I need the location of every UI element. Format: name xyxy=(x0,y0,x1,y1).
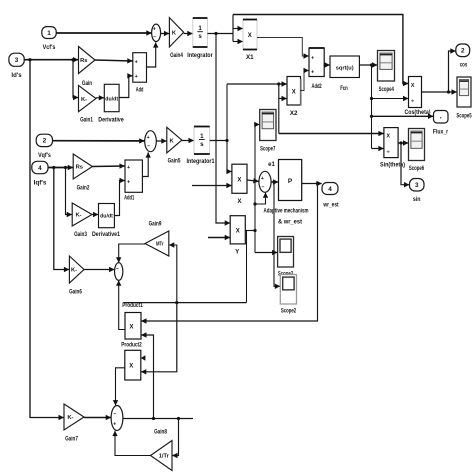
svg-text:K-: K- xyxy=(81,97,87,103)
svg-text:K-: K- xyxy=(75,213,81,219)
svg-text:Scope2: Scope2 xyxy=(281,308,297,315)
gain Gain (Rs) d-axis xyxy=(79,47,96,74)
svg-text:Gain6: Gain6 xyxy=(69,289,82,296)
wire: Y output junction xyxy=(245,230,255,232)
product X (cross term 1) xyxy=(232,164,247,193)
svg-text:Vcf's: Vcf's xyxy=(43,44,56,51)
wire: X2 second input stub xyxy=(278,84,280,134)
wire: sin output to Scope6 and port sin xyxy=(398,142,408,144)
svg-text:X: X xyxy=(386,134,390,140)
wire: Gain3 to Derivative1 xyxy=(92,214,98,216)
gain Gain4 (K) xyxy=(169,18,183,47)
wire: bottom sum output with junctions xyxy=(123,418,193,420)
svg-text:Add: Add xyxy=(136,87,144,94)
svg-text:X1: X1 xyxy=(246,54,254,61)
output port 2 cos xyxy=(456,44,470,57)
wire: Gain9 output to mid sum top xyxy=(119,244,145,263)
wire: port2 Vqf's to Sum2 xyxy=(53,140,145,142)
wire: port1 Vcf's to sum Sum1 xyxy=(56,32,151,34)
wire: Add output up into Sum1 xyxy=(147,42,156,67)
svg-text:s: s xyxy=(198,33,202,40)
svg-text:wr_est: wr_est xyxy=(323,203,339,209)
svg-text:+: + xyxy=(135,60,138,66)
wire: Gain5 to Integrator1 xyxy=(182,140,194,142)
svg-text:−: − xyxy=(116,266,119,272)
block Derivative du/dt xyxy=(104,84,119,111)
svg-text:X: X xyxy=(129,325,133,331)
svg-text:1: 1 xyxy=(200,133,204,140)
svg-text:÷: ÷ xyxy=(411,99,414,105)
svg-text:X: X xyxy=(292,90,296,96)
product X2 (flux_q squared) xyxy=(287,77,301,106)
scope Scope3 xyxy=(278,237,294,268)
block Integrator1 1/s xyxy=(194,127,210,155)
wire: Gain7 to bottom sum xyxy=(84,417,111,419)
svg-text:X: X xyxy=(237,178,241,184)
svg-text:−: − xyxy=(261,184,264,190)
wire: Iqf's vertical down to Gain6 xyxy=(54,168,69,270)
output port 4 wr_est xyxy=(322,183,338,195)
svg-text:−: − xyxy=(113,411,116,417)
wire: flux_q long wire to Sin divide xyxy=(279,133,384,135)
wire: Y signal up to Scope7 and down to Scope3 xyxy=(254,125,256,253)
wire: magnitude to Sin divide divisor xyxy=(372,148,384,150)
gain Gain6 (K-) xyxy=(69,256,84,283)
wire: Sum1 to Gain4 xyxy=(161,33,170,35)
wire: Add1 output up into Sum2 xyxy=(142,152,148,176)
svg-text:du/dt: du/dt xyxy=(105,96,118,102)
gain Gain7 (K-) xyxy=(64,404,84,430)
svg-text:Gain5: Gain5 xyxy=(168,158,181,165)
svg-text:Gain9: Gain9 xyxy=(149,221,162,228)
wire: Fcn output to Scope4 with junction xyxy=(359,64,377,66)
svg-text:+: + xyxy=(135,74,138,80)
svg-text:K-: K- xyxy=(67,415,73,421)
svg-text:+: + xyxy=(127,180,130,186)
wire: magnitude to Cos divide divisor xyxy=(372,98,409,100)
svg-text:+: + xyxy=(261,176,264,182)
svg-text:3: 3 xyxy=(415,182,419,189)
scope Scope4 xyxy=(378,51,395,82)
wire: magnitude to Flux_r port xyxy=(372,115,434,117)
wire: X1 input trunk xyxy=(232,15,234,42)
svg-text:Gain1: Gain1 xyxy=(80,117,93,124)
svg-text:Gain7: Gain7 xyxy=(65,436,78,443)
block P adaptive mechanism xyxy=(279,160,302,201)
svg-text:−: − xyxy=(153,34,156,40)
svg-text:Gain3: Gain3 xyxy=(74,231,87,238)
gain Gain8 1/Tr reversed xyxy=(151,441,173,471)
wire: up to Gain9 MTr input xyxy=(169,245,177,303)
wire: flux_d vertical down to product Y in1 xyxy=(216,34,230,224)
svg-text:Gain4: Gain4 xyxy=(170,52,183,59)
svg-text:e1: e1 xyxy=(268,162,275,168)
svg-text:X2: X2 xyxy=(290,110,298,117)
wire: Gain1 to Derivative xyxy=(96,97,104,99)
wire: down to Gain8 1/Tr input xyxy=(172,419,178,456)
block Fcn sqrt(u) xyxy=(330,56,359,78)
svg-text:Iqf's: Iqf's xyxy=(34,180,47,187)
svg-text:& wr_est: & wr_est xyxy=(278,220,302,226)
svg-text:Scope4: Scope4 xyxy=(379,86,395,93)
scope Scope7 xyxy=(260,110,276,141)
wire: Integrator output flux_d with junction xyxy=(207,33,233,35)
block Integrator 1/s xyxy=(193,18,208,47)
wire: Derivative output up to Add in2 xyxy=(119,76,132,98)
svg-text:Gain2: Gain2 xyxy=(77,185,90,192)
wire: wr_est feedback down and left to Product1 in1 xyxy=(141,184,317,322)
scope Scope5 xyxy=(457,77,471,107)
wire: Gain6 to mid sum xyxy=(84,269,114,271)
wire: Add2 to Fcn xyxy=(324,64,330,66)
sum e1 (speed tuning error) xyxy=(259,171,271,192)
wire: Gain Rs output to Add in1 xyxy=(95,60,133,61)
wire: Derivative1 output up to Add1 in2 xyxy=(114,181,124,216)
wire: Iqf's branch down to Gain3 xyxy=(66,168,72,215)
wire: Gain2 output to Add1 in1 xyxy=(92,165,124,168)
svg-text:Scope7: Scope7 xyxy=(260,146,276,153)
scope Scope6 xyxy=(409,129,425,161)
svg-text:+: + xyxy=(311,70,314,76)
unconnected input port of Product2 xyxy=(141,355,146,361)
svg-text:Rs: Rs xyxy=(76,165,83,171)
wire: branch right to Scope3 xyxy=(255,252,277,254)
svg-text:X: X xyxy=(248,33,252,39)
wire: Integrator1 output flux_q xyxy=(210,140,227,142)
svg-text:+: + xyxy=(147,135,150,141)
input port 1 Vcf's xyxy=(42,27,56,39)
svg-text:Id's: Id's xyxy=(11,72,22,79)
svg-text:1: 1 xyxy=(47,30,51,37)
svg-text:Integrator1: Integrator1 xyxy=(187,158,215,165)
svg-text:+: + xyxy=(127,165,130,171)
product Y (cross term 2) xyxy=(230,216,245,244)
svg-text:MTr: MTr xyxy=(156,242,164,248)
svg-text:X: X xyxy=(129,364,133,370)
svg-text:Gain: Gain xyxy=(82,80,92,87)
svg-text:Cos(theta): Cos(theta) xyxy=(405,110,431,116)
product Product2 flipped xyxy=(125,350,141,380)
wire: port4 Iqf's trunk xyxy=(48,167,73,169)
wire: X product in2 from left xyxy=(192,185,232,187)
svg-text:4: 4 xyxy=(38,165,42,172)
svg-text:Add1: Add1 xyxy=(124,195,135,202)
svg-text:cos: cos xyxy=(460,62,468,69)
wire: port3 Id's trunk with junctions xyxy=(24,59,78,61)
block Derivative1 du/dt xyxy=(99,204,115,228)
svg-text:+: + xyxy=(311,56,314,62)
svg-text:Add2: Add2 xyxy=(312,83,323,90)
wire: Id's long left vertical to Gain7 xyxy=(30,60,64,418)
sum Sum2 (q-axis) xyxy=(145,131,157,152)
block Add (sum of d-axis terms) xyxy=(133,53,147,82)
svg-text:+: + xyxy=(153,27,156,33)
svg-text:Fcn: Fcn xyxy=(340,85,348,92)
block Add2 (sum of squares) xyxy=(309,48,324,77)
input port 3 Id's xyxy=(9,53,24,66)
svg-text:+: + xyxy=(113,421,116,427)
product X1 (flux_d squared) xyxy=(243,20,257,50)
block Add1 xyxy=(125,160,142,192)
output port 3 sin xyxy=(410,179,425,192)
wire: cos output to Scope5 and port cos xyxy=(422,91,457,93)
svg-text:÷: ÷ xyxy=(387,149,390,155)
wire: e1 down to Scope2 xyxy=(274,182,280,286)
output port Flux_r xyxy=(434,111,449,124)
wire: P output to port4 wr_est xyxy=(302,183,322,185)
svg-text:4: 4 xyxy=(328,186,332,193)
wire: Product2 output down to bottom sum xyxy=(116,368,125,406)
svg-text:K-: K- xyxy=(71,268,77,274)
gain Gain3 (K-) xyxy=(72,203,92,226)
svg-text:2: 2 xyxy=(43,138,47,145)
svg-text:P: P xyxy=(288,178,293,185)
product Product1 flipped xyxy=(125,313,141,340)
svg-text:1/Tr: 1/Tr xyxy=(159,454,169,460)
wire: Y out down to cross wire A xyxy=(246,231,248,303)
svg-text:du/dt: du/dt xyxy=(100,214,113,220)
svg-text:Scope5: Scope5 xyxy=(456,113,472,120)
input port 4 Iqf's xyxy=(32,161,48,173)
svg-text:Integrator: Integrator xyxy=(187,52,213,59)
wire: flux_d top wire across to Cos divide xyxy=(233,15,408,84)
wire: Id's branch down to Gain1 xyxy=(73,60,78,98)
wire: Gain8 output up into bottom sum xyxy=(115,431,151,456)
svg-text:X: X xyxy=(411,83,415,89)
sum mid (rotor flux d model) xyxy=(115,263,123,281)
wire: Y product in2 xyxy=(208,237,230,239)
svg-text:Vqf's: Vqf's xyxy=(38,152,51,159)
wire: Sum2 to Gain5 xyxy=(156,140,166,142)
svg-text:Gain8: Gain8 xyxy=(154,429,167,436)
svg-text:sin: sin xyxy=(413,196,421,203)
svg-text:s: s xyxy=(200,141,204,148)
svg-text:Flux_r: Flux_r xyxy=(433,130,449,136)
svg-text:Scope6: Scope6 xyxy=(409,165,425,172)
svg-text:sqrt(u): sqrt(u) xyxy=(336,65,354,71)
svg-text:Product2: Product2 xyxy=(121,342,142,349)
gain Gain2 (Rs) q-axis xyxy=(73,154,92,179)
svg-text:Product1: Product1 xyxy=(122,302,143,309)
gain Gain5 (K) xyxy=(167,127,182,153)
svg-text:2: 2 xyxy=(461,48,465,55)
gain Gain1 (K-) xyxy=(79,85,96,111)
input port 2 Vqf's xyxy=(36,134,52,146)
svg-text:−: − xyxy=(147,144,150,150)
divide Cos(theta) block xyxy=(409,77,422,108)
svg-text:Rs: Rs xyxy=(80,58,87,64)
wire: cross wire A (to Gain9 and Product2) xyxy=(124,302,247,304)
wire: Gain4 to Integrator xyxy=(184,33,193,35)
wire: flux_q vertical to X in1 and X2 feed xyxy=(226,84,229,172)
gain Gain9 MTr reversed xyxy=(145,231,169,256)
scope Scope2 selected xyxy=(280,275,296,305)
svg-text:Derivative: Derivative xyxy=(98,117,124,124)
divide Sin(theta) block xyxy=(384,128,398,158)
svg-text:1: 1 xyxy=(198,25,202,32)
sum Sum1 (d-axis) xyxy=(152,24,161,41)
wire: Product1 output up into mid sum xyxy=(119,281,125,330)
wire: X1 output to Add2 in1 xyxy=(257,38,309,57)
wire: down to Product2 in2 xyxy=(141,303,177,372)
wire: Product1 in2 from bottom loop xyxy=(141,335,153,419)
svg-text:Derivative1: Derivative1 xyxy=(92,231,120,238)
sum bottom (rotor flux q model) xyxy=(111,406,123,431)
svg-text:X: X xyxy=(236,229,240,235)
wire: e1 to P block xyxy=(271,181,278,183)
wire: flux magnitude vertical distribution xyxy=(371,65,373,149)
wire: X output into sum e1 xyxy=(247,180,259,181)
wire: branch into sum e1 bottom xyxy=(255,193,266,204)
svg-text:Adaptive mechanism: Adaptive mechanism xyxy=(264,209,309,215)
wire: flux_q feed to product X2 xyxy=(227,83,287,85)
wire: X2 output up to Add2 in2 xyxy=(301,71,309,91)
svg-text:3: 3 xyxy=(15,57,19,64)
